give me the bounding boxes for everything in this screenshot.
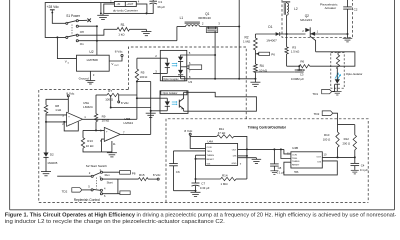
svg-text:P8: P8 (132, 172, 136, 176)
svg-text:C1: C1 (158, 0, 162, 4)
svg-text:TD2: TD2 (62, 190, 68, 194)
ground C2 node (347, 34, 349, 38)
svg-text:C2: C2 (354, 7, 358, 11)
svg-text:MAC223: MAC223 (300, 18, 312, 22)
svg-text:8 Vdc: 8 Vdc (115, 49, 123, 53)
photoresistor in U6 (337, 52, 339, 55)
svg-text:R13: R13 (87, 139, 93, 143)
LED in U6 (336, 69, 338, 79)
svg-text:Replenish Control: Replenish Control (74, 198, 100, 202)
capacitor C3 (298, 66, 300, 70)
capacitor C1 (152, 0, 154, 1)
svg-text:Opto-Isolator: Opto-Isolator (346, 72, 363, 76)
svg-text:THRES: THRES (292, 161, 300, 163)
svg-text:S1 Power: S1 Power (66, 14, 81, 18)
svg-text:Actuator: Actuator (325, 6, 337, 10)
svg-text:+28 Vdc: +28 Vdc (47, 5, 60, 9)
no-connect X (78, 19, 87, 21)
svg-text:C8: C8 (278, 166, 282, 170)
svg-text:R4: R4 (260, 64, 264, 68)
svg-text:0.33 µF: 0.33 µF (200, 186, 210, 190)
svg-text:1 MΩ: 1 MΩ (221, 182, 229, 186)
wire main rail (177, 26, 186, 28)
LED in U7 (160, 97, 167, 99)
dc-to-dc converter U1 (104, 4, 147, 13)
capacitor C2 (347, 0, 349, 7)
svg-text:R1: R1 (121, 23, 125, 27)
svg-text:CON: CON (207, 147, 212, 149)
svg-text:D2: D2 (50, 153, 54, 157)
capacitor C6 (173, 151, 175, 164)
wire gate loop (310, 52, 355, 66)
svg-text:0.1 µF: 0.1 µF (360, 168, 368, 172)
svg-text:C4: C4 (361, 164, 365, 168)
svg-text:L1: L1 (180, 16, 184, 20)
wire U3 pin 3 (160, 73, 167, 75)
page right rule (394, 0, 396, 210)
svg-text:P6: P6 (271, 52, 275, 56)
terminal 8 Vdc R15 (157, 178, 159, 180)
ground C4 (354, 169, 356, 170)
wire Q1 gate column (214, 31, 216, 79)
svg-text:TD1: TD1 (312, 92, 318, 96)
wire HV riser (238, 0, 240, 79)
svg-text:DIS: DIS (233, 156, 237, 158)
svg-text:10 kΩ: 10 kΩ (86, 144, 94, 148)
svg-text:OUT: OUT (316, 157, 321, 159)
svg-text:OUT: OUT (114, 65, 119, 67)
svg-text:C6: C6 (176, 170, 180, 174)
wire U5B output (120, 133, 150, 135)
svg-text:Off: Off (80, 30, 84, 34)
svg-text:8 Vdc: 8 Vdc (153, 173, 161, 177)
svg-text:TRIG: TRIG (292, 158, 298, 160)
svg-text:TRIG: TRIG (207, 151, 213, 153)
svg-text:C3: C3 (300, 72, 304, 76)
svg-text:C7: C7 (201, 181, 205, 185)
plug P8 (120, 171, 131, 175)
svg-text:dc-to-dc Converter: dc-to-dc Converter (113, 8, 138, 12)
wire opto output loop (188, 92, 256, 111)
cyan light arrows U6 (335, 74, 338, 79)
wire On-line riser to L1 (176, 27, 178, 41)
ground R4 (254, 79, 256, 82)
svg-text:47 kΩ: 47 kΩ (218, 131, 226, 135)
wire 8V to R8 and U5A (67, 97, 69, 113)
wire U7 LED cathode (151, 110, 160, 112)
wire U5A output (83, 118, 137, 120)
wire U7 LED anode feed (137, 97, 160, 99)
wire U3 pin 6-7 tap (181, 66, 187, 68)
svg-text:1N4005: 1N4005 (47, 161, 58, 165)
wire switched node to U2 input (96, 26, 98, 55)
svg-text:LM324: LM324 (83, 105, 93, 109)
photodiode pair in U3 (181, 55, 187, 57)
wire U4A DIS (238, 155, 247, 157)
wire R5 to U5A output (136, 81, 138, 120)
svg-text:8 Vdc: 8 Vdc (121, 101, 129, 105)
dashed bottom boundary (39, 201, 368, 203)
wire U5B power pin (111, 141, 113, 152)
svg-text:1 kΩ: 1 kΩ (118, 32, 125, 36)
wire L2 to node (286, 15, 288, 34)
svg-text:DIS: DIS (317, 162, 321, 164)
ground D2 (45, 170, 47, 173)
svg-text:10 kΩ: 10 kΩ (102, 119, 110, 123)
wire +28V to S1 pole 1 (52, 13, 66, 24)
wire S1 throw 2 (78, 25, 97, 27)
phototransistor in U7 (178, 100, 180, 108)
wire U1 pin2 to ground (100, 3, 102, 14)
ground opto LED (150, 111, 152, 113)
wire C6 bottom (174, 190, 196, 192)
svg-text:ing inductor L2 to recycle the: ing inductor L2 to recycle the charge on… (5, 219, 225, 225)
svg-text:556: 556 (294, 171, 299, 174)
wire S1 On contact to L1 (78, 40, 176, 42)
wire U2 out (109, 57, 122, 62)
wire Start to R15 (103, 178, 139, 180)
svg-text:100 Ω: 100 Ω (323, 137, 331, 141)
page left rule (9, 0, 11, 210)
jumper plug pins 6-7 (189, 65, 202, 70)
svg-text:TD2: TD2 (314, 112, 320, 116)
ground C8 (273, 170, 275, 171)
svg-text:Figure 1. This Circuit Operate: Figure 1. This Circuit Operates at High … (5, 213, 397, 219)
svg-text:Ground: Ground (79, 77, 89, 81)
svg-text:200 Ω: 200 Ω (343, 141, 351, 145)
svg-text:U4B: U4B (292, 146, 298, 150)
svg-text:36 µF: 36 µF (157, 5, 165, 9)
wire Q2 gate (310, 36, 315, 52)
opto coupler U3 box (160, 50, 187, 80)
svg-text:Timing Control/Oscillator: Timing Control/Oscillator (248, 125, 287, 129)
LED in U3 (160, 57, 167, 59)
wire THRES TRIG bus (196, 154, 206, 156)
wire U3 pin 5 to Q1 gate (187, 54, 215, 56)
cyan light arrows U7 (172, 101, 176, 103)
svg-text:100 Ω: 100 Ω (140, 75, 149, 79)
wire S2 lower contact (103, 193, 120, 195)
svg-text:100 Ω: 100 Ω (105, 98, 114, 102)
svg-text:Run: Run (105, 173, 111, 177)
wire U4A out to U4B (284, 149, 291, 154)
ground U1 (100, 13, 102, 15)
capacitor C7 (192, 182, 200, 184)
wire S1 Off contact to R1 (78, 29, 104, 35)
svg-text:R6: R6 (300, 60, 304, 64)
wire 8V to U4A and R11 (190, 135, 205, 148)
svg-text:Opto Isolator: Opto Isolator (163, 91, 178, 95)
terminal 8 Vdc R7 (118, 101, 120, 103)
svg-text:GND: GND (232, 163, 237, 165)
svg-text:D1: D1 (268, 25, 272, 29)
caption divider rule (10, 209, 395, 211)
svg-text:R7: R7 (108, 89, 112, 93)
svg-text:R15: R15 (139, 173, 145, 177)
dashed boundary opto region (128, 47, 246, 119)
capacitor C4 (354, 157, 356, 163)
ground U6 LED (336, 90, 338, 92)
svg-text:On: On (80, 42, 84, 46)
svg-text:1.5 kΩ: 1.5 kΩ (291, 49, 300, 53)
wire LED ground branch (137, 81, 151, 83)
svg-text:IRFBG30: IRFBG30 (198, 16, 211, 20)
capacitor C8 (273, 149, 275, 163)
svg-text:0.0082 µF: 0.0082 µF (291, 77, 304, 81)
svg-text:1 MΩ: 1 MΩ (243, 40, 251, 44)
wire U4B OUT (322, 156, 355, 158)
switch S2 pole 2 (91, 189, 93, 191)
svg-text:+OUT: +OUT (126, 2, 133, 6)
cyan light arrows U3 (172, 63, 176, 65)
svg-text:OUT: OUT (232, 149, 237, 151)
svg-text:Opto Coupler: Opto Coupler (163, 77, 179, 81)
wire R9 to U5B (95, 122, 97, 131)
wire U5A feedback (64, 122, 78, 131)
svg-text:Start: Start (107, 181, 113, 185)
dashed boundary Replenish Control box (39, 90, 129, 203)
svg-text:8 Vdc: 8 Vdc (184, 129, 192, 133)
svg-text:U3: U3 (188, 80, 192, 84)
svg-text:RESET: RESET (207, 159, 215, 161)
opto isolator U7 box (160, 91, 188, 114)
svg-text:RESET: RESET (292, 165, 300, 167)
wire +28V rail left (45, 3, 114, 38)
svg-text:CON: CON (292, 155, 297, 157)
plug lower (120, 191, 130, 195)
svg-text:1 kΩ: 1 kΩ (55, 108, 62, 112)
wire C6 to U4A (174, 150, 206, 152)
svg-text:U4A: U4A (207, 139, 214, 143)
ground C7 (195, 190, 197, 192)
svg-text:U2: U2 (89, 50, 93, 54)
plug P6 (256, 53, 259, 55)
wire Run to P8 (103, 171, 120, 173)
wire cross branch (110, 95, 112, 108)
svg-text:LM324: LM324 (124, 121, 134, 125)
svg-text:S2 Start Switch: S2 Start Switch (86, 164, 107, 168)
svg-text:1N4007: 1N4007 (266, 39, 277, 43)
inductor L2 (283, 1, 291, 3)
wire R5 node to U3 pin 2 (137, 57, 160, 59)
wire U5B pin 6 (102, 139, 105, 152)
wire U4A OUT (238, 148, 284, 150)
ground U4A (238, 157, 257, 159)
wire TD2 to R10 R12 (333, 113, 338, 132)
dashed boundary piezo high-voltage region (282, 0, 353, 37)
wire U4B loop (284, 161, 337, 175)
ground R1 (145, 29, 147, 31)
ground U5B (111, 151, 113, 154)
wire U3 pin 8 (187, 78, 256, 80)
svg-text:–IN: –IN (116, 2, 120, 6)
svg-text:THRES: THRES (207, 155, 215, 157)
svg-text:L2: L2 (294, 7, 298, 11)
opto-isolator U6 box (331, 53, 344, 89)
dashed boundary Timing Control box (166, 119, 368, 203)
svg-text:LM7808: LM7808 (87, 58, 98, 62)
wire R8 to U5A inputs (45, 113, 47, 152)
